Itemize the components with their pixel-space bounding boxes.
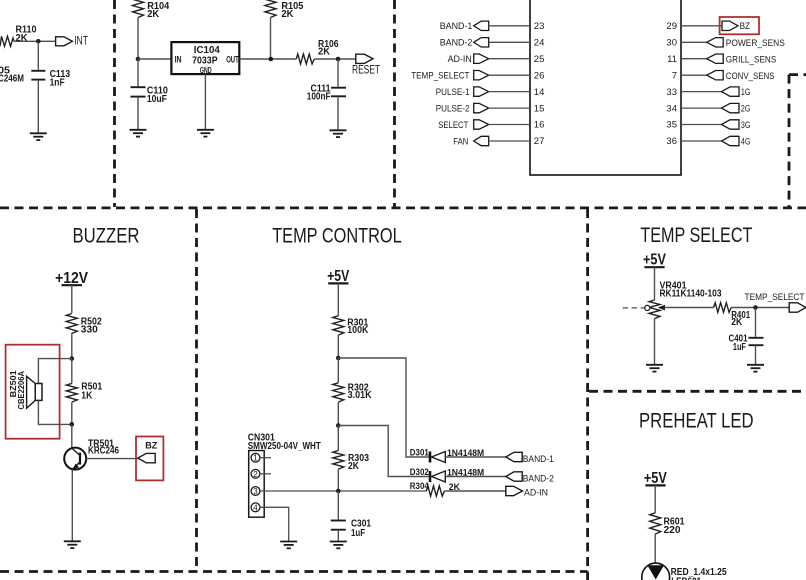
- svg-text:34: 34: [666, 103, 677, 114]
- svg-text:3G: 3G: [741, 120, 751, 131]
- wire: [137, 59, 139, 86]
- section divider vertical top-right: [788, 75, 791, 207]
- pin 4: [251, 503, 260, 512]
- wire: [337, 59, 339, 87]
- wire: [71, 359, 73, 384]
- svg-text:35: 35: [666, 120, 677, 131]
- svg-text:14: 14: [534, 87, 545, 98]
- highlight box BZ: [720, 17, 759, 34]
- wire: [239, 58, 296, 60]
- wire: [38, 359, 71, 384]
- svg-text:D302: D302: [410, 467, 429, 478]
- wire: [14, 40, 56, 42]
- svg-text:SELECT: SELECT: [438, 120, 468, 131]
- svg-text:C246M: C246M: [0, 74, 24, 85]
- resistor R106: [296, 39, 339, 64]
- supply +5V: [327, 268, 350, 285]
- svg-text:25: 25: [534, 54, 545, 65]
- resistor R302: [333, 382, 372, 402]
- svg-text:KRC246: KRC246: [88, 446, 119, 457]
- flag AD-IN: [506, 486, 548, 498]
- wire: [445, 476, 506, 478]
- node: [336, 489, 341, 494]
- flag INT: [56, 36, 88, 48]
- svg-text:+5V: +5V: [643, 251, 666, 268]
- highlight box BZ: [136, 437, 163, 481]
- wire: [337, 491, 339, 520]
- wire to D302: [338, 426, 428, 477]
- section divider vertical left: [113, 0, 116, 207]
- svg-text:GRILL_SENS: GRILL_SENS: [726, 54, 777, 65]
- wire: [445, 456, 506, 458]
- svg-text:26: 26: [534, 70, 545, 81]
- wire: [138, 58, 171, 60]
- svg-text:24: 24: [534, 38, 545, 49]
- wire: [137, 18, 139, 60]
- svg-text:TEMP_SELECT: TEMP_SELECT: [411, 71, 469, 82]
- wire: [664, 307, 714, 309]
- svg-text:100K: 100K: [347, 325, 369, 336]
- pin 23 BAND-1: [440, 21, 545, 32]
- svg-text:R304: R304: [410, 481, 430, 492]
- wire: [654, 534, 656, 563]
- svg-text:30: 30: [666, 38, 677, 49]
- svg-text:23: 23: [534, 21, 545, 32]
- pin 29 BZ: [666, 21, 750, 32]
- svg-text:BAND-1: BAND-1: [523, 454, 554, 465]
- svg-text:2K: 2K: [281, 9, 294, 20]
- pin 15 PULSE-2: [436, 103, 545, 114]
- section divider vertical mid: [393, 0, 396, 207]
- resistor R105: [265, 0, 304, 20]
- svg-text:3: 3: [253, 487, 258, 496]
- svg-text:1uF: 1uF: [351, 528, 365, 539]
- svg-text:RESET: RESET: [352, 65, 380, 77]
- wire pin4 to ground: [260, 507, 289, 541]
- pin 16 SELECT: [438, 120, 544, 131]
- buzzer BZ501: [8, 370, 42, 409]
- svg-text:3.01K: 3.01K: [348, 390, 373, 401]
- wire: [71, 285, 73, 313]
- svg-text:27: 27: [534, 136, 545, 147]
- pin 30 POWER_SENS: [666, 38, 784, 49]
- svg-text:7: 7: [672, 70, 677, 81]
- wire: [337, 96, 339, 130]
- svg-text:POWER_SENS: POWER_SENS: [726, 38, 785, 49]
- wire: [37, 41, 39, 70]
- ground: [30, 133, 47, 140]
- pin 24 BAND-2: [440, 38, 545, 49]
- flag RESET: [352, 54, 380, 76]
- partial label TR105 KRC246M (cut at edge): [0, 66, 24, 85]
- pin 25 AD-IN: [448, 54, 545, 65]
- svg-text:220: 220: [664, 525, 681, 536]
- svg-text:IN: IN: [175, 54, 182, 64]
- LED LED601: [642, 563, 727, 580]
- connector CN301: [248, 433, 321, 518]
- svg-text:PREHEAT LED: PREHEAT LED: [639, 410, 754, 433]
- wire to D301: [338, 358, 428, 457]
- pin 2: [251, 469, 260, 478]
- wire: [86, 458, 138, 460]
- resistor R601: [650, 513, 685, 536]
- wire: [755, 345, 757, 365]
- flag BAND-1: [506, 452, 554, 465]
- svg-text:RK11K1140-103: RK11K1140-103: [660, 289, 722, 300]
- svg-text:4: 4: [253, 503, 258, 512]
- ground: [64, 541, 81, 548]
- section divider horizontal tempselect/preheat: [589, 390, 806, 393]
- pin 34 2G: [666, 103, 750, 114]
- svg-text:BZ: BZ: [740, 21, 751, 32]
- ground: [197, 130, 214, 137]
- resistor R501: [66, 382, 102, 402]
- wire: [71, 333, 73, 359]
- svg-text:CBE2206A: CBE2206A: [16, 371, 26, 410]
- wire: [337, 358, 339, 383]
- svg-text:11: 11: [667, 54, 677, 65]
- wire: [204, 74, 206, 130]
- svg-text:CONV_SENS: CONV_SENS: [726, 71, 775, 82]
- svg-text:BAND-2: BAND-2: [523, 473, 554, 484]
- wire: [337, 335, 339, 358]
- svg-text:PULSE-1: PULSE-1: [436, 87, 470, 98]
- node: [753, 305, 758, 310]
- node: [336, 423, 341, 428]
- ground: [747, 365, 764, 372]
- wire: [337, 283, 339, 315]
- wire: [270, 18, 272, 60]
- svg-text:1uF: 1uF: [733, 342, 746, 353]
- wire: [37, 80, 39, 134]
- ground: [280, 542, 297, 549]
- ground: [646, 365, 663, 372]
- node: [70, 422, 75, 427]
- capacitor C401: [729, 334, 764, 353]
- wire: [337, 402, 339, 425]
- pin 27 FAN: [453, 136, 544, 147]
- node: [336, 356, 341, 361]
- pin 1: [251, 453, 260, 462]
- svg-text:AD-IN: AD-IN: [524, 487, 548, 498]
- flag TEMP_SELECT: [745, 292, 806, 312]
- section divider horizontal top-right stub: [789, 73, 806, 76]
- svg-text:1: 1: [253, 454, 258, 463]
- resistor R304: [410, 481, 460, 496]
- pin 26 TEMP_SELECT: [411, 70, 544, 81]
- svg-text:TEMP_SELECT: TEMP_SELECT: [745, 292, 805, 303]
- diode D301: [410, 448, 484, 463]
- pin 11 GRILL_SENS: [667, 54, 776, 65]
- diode D302: [410, 467, 484, 482]
- transistor TR501: [64, 438, 119, 469]
- node: [36, 39, 41, 44]
- svg-text:2K: 2K: [318, 47, 331, 58]
- resistor R104: [133, 0, 170, 20]
- pin 36 4G: [666, 136, 750, 147]
- pin 35 3G: [666, 120, 750, 131]
- node: [269, 57, 274, 62]
- svg-text:LED601: LED601: [671, 577, 701, 580]
- svg-text:BAND-2: BAND-2: [440, 38, 473, 49]
- svg-text:16: 16: [534, 120, 545, 131]
- node: [70, 356, 75, 361]
- svg-text:100nF: 100nF: [307, 92, 331, 103]
- wire: [444, 490, 505, 492]
- svg-text:36: 36: [666, 136, 677, 147]
- potentiometer VR401: [623, 280, 722, 318]
- wire: [137, 97, 139, 130]
- section divider vertical tempcontrol/right: [586, 209, 589, 580]
- resistor R502: [66, 314, 102, 336]
- regulator IC104: [171, 42, 239, 75]
- wire: [654, 485, 656, 512]
- pin 3: [251, 487, 260, 496]
- wire: [731, 307, 789, 309]
- flag BAND-2: [506, 472, 554, 485]
- svg-text:OUT: OUT: [226, 54, 239, 64]
- svg-text:BUZZER: BUZZER: [73, 225, 140, 248]
- pin 33 1G: [666, 87, 750, 98]
- svg-text:INT: INT: [74, 36, 88, 48]
- svg-text:2G: 2G: [741, 104, 751, 115]
- wire pin3 row: [260, 490, 426, 492]
- wire: [38, 400, 71, 424]
- section divider vertical buzzer/tempcontrol: [195, 209, 198, 572]
- svg-text:1nF: 1nF: [50, 77, 65, 88]
- svg-text:2: 2: [253, 470, 258, 479]
- ground: [330, 130, 347, 137]
- capacitor C301: [331, 519, 372, 539]
- svg-text:1K: 1K: [81, 390, 93, 401]
- wire: [314, 58, 356, 60]
- supply +5V: [644, 470, 667, 487]
- svg-text:33: 33: [666, 87, 677, 98]
- svg-text:2K: 2K: [147, 9, 160, 20]
- wire: [654, 267, 656, 300]
- resistor R303: [333, 451, 370, 473]
- svg-text:2K: 2K: [16, 33, 29, 44]
- svg-text:2K: 2K: [348, 461, 360, 472]
- resistor R401: [714, 303, 751, 328]
- ground: [130, 130, 147, 137]
- svg-text:D301: D301: [410, 448, 430, 459]
- wire: [71, 402, 73, 424]
- capacitor C110: [131, 85, 169, 105]
- svg-text:FAN: FAN: [453, 136, 468, 147]
- section divider horizontal bottom: [0, 570, 588, 573]
- section divider horizontal main: [0, 206, 806, 209]
- svg-text:10uF: 10uF: [147, 94, 167, 105]
- svg-text:TEMP SELECT: TEMP SELECT: [640, 224, 752, 247]
- resistor R301: [333, 316, 369, 336]
- wire: [654, 319, 656, 365]
- svg-text:TEMP CONTROL: TEMP CONTROL: [272, 225, 402, 248]
- ground: [330, 542, 347, 549]
- svg-text:AD-IN: AD-IN: [448, 54, 472, 65]
- svg-text:330: 330: [81, 325, 98, 336]
- supply +5V: [643, 251, 666, 268]
- flag BZ: [138, 441, 158, 463]
- microcontroller U (main IC, top cropped): [530, 0, 681, 175]
- svg-text:15: 15: [534, 103, 545, 114]
- wire: [71, 470, 73, 542]
- node: [136, 57, 141, 62]
- svg-text:4G: 4G: [741, 137, 751, 148]
- wire: [337, 469, 339, 491]
- wire: [337, 426, 339, 451]
- svg-text:BAND-1: BAND-1: [440, 21, 473, 32]
- highlight box buzzer: [6, 345, 60, 439]
- svg-text:GND: GND: [200, 65, 212, 75]
- svg-text:PULSE-2: PULSE-2: [436, 104, 470, 115]
- svg-text:2K: 2K: [731, 317, 743, 328]
- pin 14 PULSE-1: [436, 87, 545, 98]
- svg-text:BZ: BZ: [145, 441, 157, 452]
- capacitor C113: [31, 69, 70, 88]
- capacitor C111: [307, 83, 346, 102]
- resistor R110: [0, 25, 37, 47]
- svg-text:29: 29: [666, 21, 677, 32]
- supply +12V: [55, 270, 89, 287]
- wire: [755, 308, 757, 337]
- node: [336, 57, 341, 62]
- svg-text:1G: 1G: [741, 87, 751, 98]
- wire: [337, 530, 339, 542]
- pin 7 CONV_SENS: [672, 70, 775, 81]
- wire: [71, 424, 73, 447]
